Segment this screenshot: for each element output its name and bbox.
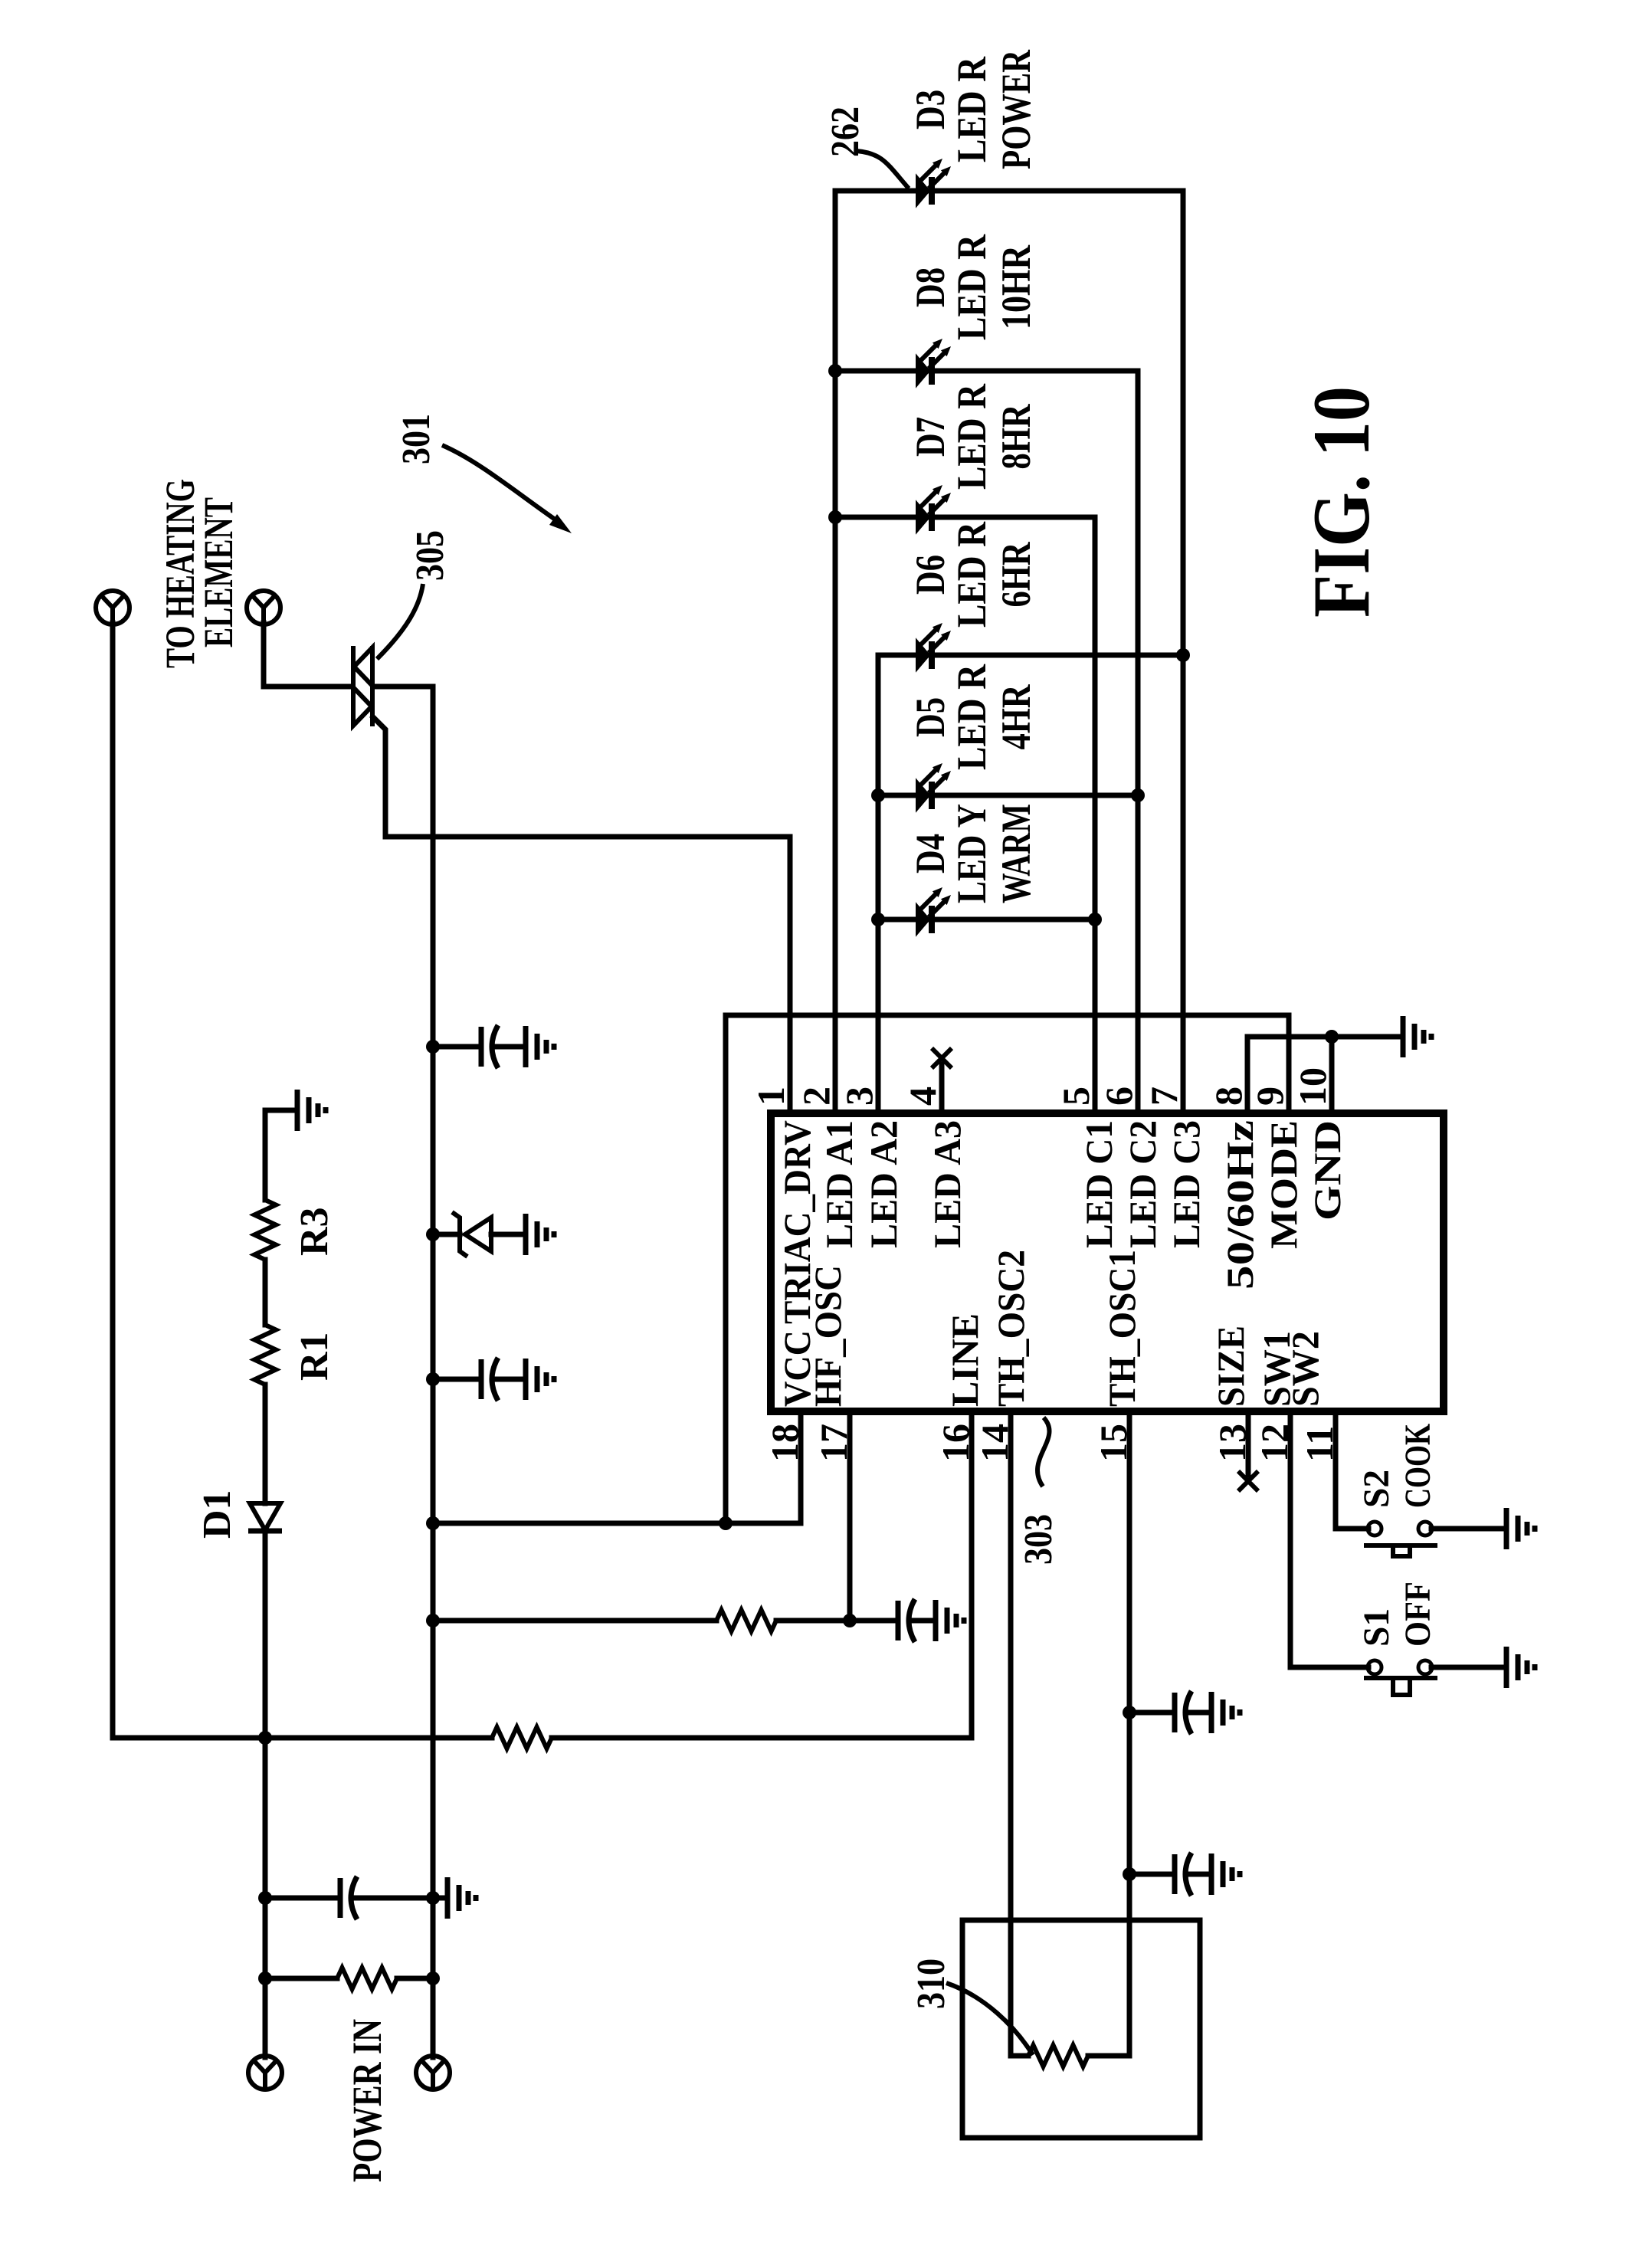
svg-text:LED C1: LED C1 [1077, 1120, 1120, 1248]
node rail3 vcc [426, 1516, 440, 1530]
LED D8 [916, 339, 951, 386]
node pin17 rc [843, 1614, 857, 1627]
wire: LED C3 rail [1181, 191, 1186, 1111]
terminal heating R [247, 591, 280, 624]
wire: rail3 cap shunt 1 [433, 1044, 526, 1050]
resistor line-sense [492, 1727, 552, 1749]
svg-text:D6: D6 [907, 555, 953, 595]
wire: D5 row [878, 793, 1138, 798]
node mode/vcc [719, 1516, 733, 1530]
svg-text:ELEMENT: ELEMENT [195, 497, 241, 647]
svg-text:FIG. 10: FIG. 10 [1296, 386, 1386, 618]
wire: rail3 zener shunt [433, 1232, 526, 1237]
wire: S2 to ground [1431, 1526, 1506, 1532]
no-connect pin4 [932, 1048, 952, 1068]
svg-text:D5: D5 [907, 697, 953, 737]
capacitor rail3 upper [481, 1025, 498, 1068]
wire: MODE loop around IC [726, 1015, 1289, 1523]
resistor power-in [337, 1968, 397, 1989]
svg-text:POWER IN: POWER IN [344, 2019, 390, 2182]
svg-text:TH_OSC1: TH_OSC1 [1100, 1250, 1143, 1407]
ground rail2 top [297, 1090, 326, 1131]
svg-text:17: 17 [812, 1424, 855, 1462]
svg-text:15: 15 [1092, 1424, 1135, 1462]
node rail3 powercap [426, 1891, 440, 1905]
node rail3 cap2 [426, 1372, 440, 1386]
wire: pin13 stub [1246, 1411, 1251, 1475]
svg-text:16: 16 [934, 1424, 977, 1462]
terminal heating L [96, 591, 129, 624]
svg-text:4: 4 [901, 1087, 944, 1106]
wire: thermistor link in box [1011, 2053, 1129, 2059]
node rail2/res [258, 1971, 272, 1985]
svg-text:LED C2: LED C2 [1121, 1120, 1164, 1248]
zener diode [452, 1212, 491, 1257]
no-connect pin13 [1238, 1471, 1258, 1491]
svg-text:1: 1 [749, 1087, 792, 1106]
svg-text:SIZE: SIZE [1209, 1326, 1252, 1407]
node a1/d7 [828, 510, 842, 524]
diode D1 [248, 1503, 282, 1531]
capacitor th-osc1 b [1175, 1853, 1191, 1896]
svg-text:305: 305 [408, 530, 452, 581]
svg-text:MODE: MODE [1262, 1120, 1305, 1249]
node rail2/line [258, 1731, 272, 1745]
svg-text:6HR: 6HR [993, 542, 1039, 608]
svg-text:S1: S1 [1356, 1608, 1397, 1647]
wire: VCC feed [433, 1414, 801, 1523]
wire: pin9 stub [1287, 1015, 1292, 1111]
wire: pin15 cap row 2 [1129, 1872, 1211, 1877]
wire: S1 to ground [1431, 1665, 1506, 1670]
node rail3 hf [426, 1614, 440, 1627]
svg-text:TH_OSC2: TH_OSC2 [989, 1250, 1032, 1407]
wire: pin8 pin10 ground tie [1247, 1037, 1403, 1111]
wire: D6 row [878, 653, 1183, 658]
svg-text:SW2: SW2 [1283, 1331, 1326, 1407]
svg-text:D1: D1 [195, 1490, 239, 1539]
node pin10 gnd [1325, 1030, 1339, 1044]
node pin15 cap2 [1123, 1867, 1136, 1881]
svg-text:LED A3: LED A3 [926, 1120, 969, 1248]
node a2/d4 [871, 913, 885, 926]
node c2/d5 [1131, 788, 1145, 802]
svg-text:D4: D4 [907, 834, 953, 873]
wire: LED A1 rail [833, 191, 838, 1111]
wire: pin14 TH_OSC2 drop [1008, 1414, 1014, 2056]
capacitor power-in [340, 1876, 357, 1919]
node c3/d6 [1176, 648, 1190, 662]
wire: pin15 TH_OSC1 drop [1127, 1414, 1132, 2056]
ground rail3 cap2 [526, 1359, 554, 1400]
LED D4 [916, 887, 951, 935]
node a2/d5 [871, 788, 885, 802]
node rail3 cap1 [426, 1040, 440, 1054]
svg-text:D3: D3 [907, 90, 953, 129]
svg-text:11: 11 [1298, 1426, 1341, 1462]
svg-text:GND: GND [1306, 1120, 1349, 1221]
svg-text:OFF: OFF [1398, 1581, 1438, 1647]
resistor R3 [254, 1200, 276, 1260]
LED D7 [916, 485, 951, 533]
wire: LED C1 rail [1093, 517, 1098, 1111]
wire: pin11 to S2 [1336, 1414, 1368, 1529]
svg-text:WARM: WARM [993, 804, 1039, 903]
resistor thermistor 310 [1028, 2045, 1088, 2067]
svg-text:HF_OSC: HF_OSC [806, 1265, 849, 1407]
ground power cap [447, 1877, 476, 1919]
ground pin8 pin10 [1403, 1016, 1431, 1057]
svg-text:LINE: LINE [943, 1313, 986, 1407]
node rail3 zener [426, 1227, 440, 1241]
capacitor rail3 lower [481, 1358, 498, 1401]
resistor hf-osc [716, 1610, 776, 1631]
wire: D1 chain rail [265, 1110, 297, 2057]
wire: pin2 stub [833, 1111, 838, 1113]
node rail2/cap [258, 1891, 272, 1905]
svg-text:301: 301 [395, 414, 438, 464]
svg-text:8HR: 8HR [993, 404, 1039, 470]
svg-text:6: 6 [1097, 1087, 1140, 1106]
svg-text:R1: R1 [293, 1332, 336, 1381]
node rail3 powerres [426, 1971, 440, 1985]
wire: LED C2 rail [1136, 371, 1141, 1111]
svg-text:2: 2 [795, 1087, 837, 1106]
svg-text:POWER: POWER [993, 49, 1039, 169]
svg-text:D7: D7 [907, 417, 953, 457]
svg-text:LED R: LED R [949, 383, 995, 490]
svg-text:LED A2: LED A2 [862, 1120, 905, 1248]
IC U303 body [771, 1113, 1444, 1411]
svg-text:D8: D8 [907, 267, 953, 307]
svg-text:13: 13 [1211, 1424, 1254, 1462]
switch S1 [1364, 1660, 1437, 1695]
wire: D4 row [878, 917, 1095, 923]
triac 305 [353, 646, 372, 726]
svg-text:14: 14 [973, 1424, 1016, 1462]
svg-text:7: 7 [1142, 1087, 1185, 1106]
resistor R1 [254, 1325, 276, 1385]
svg-text:R3: R3 [293, 1207, 336, 1256]
svg-text:LED Y: LED Y [949, 804, 995, 903]
node a1/d8 [828, 364, 842, 378]
capacitor th-osc1 a [1175, 1691, 1191, 1734]
svg-text:LED R: LED R [949, 56, 995, 162]
wire: triac to VCC rail corner [374, 687, 433, 2057]
svg-text:LED R: LED R [949, 234, 995, 340]
svg-text:4HR: 4HR [993, 684, 1039, 750]
ground rail3 cap1 [526, 1026, 554, 1067]
capacitor hf-osc [898, 1599, 915, 1642]
LED D5 [916, 763, 951, 811]
svg-text:3: 3 [837, 1087, 880, 1106]
wire: pin12 to S1 [1290, 1414, 1368, 1667]
box 310 thermistor enclosure [962, 1920, 1200, 2138]
wire: triac gate to pin1 [373, 717, 790, 1111]
node c1/d4 [1088, 913, 1102, 926]
svg-text:10HR: 10HR [993, 244, 1039, 329]
LED D6 [916, 623, 951, 670]
wire: pin4 stub [939, 1064, 945, 1113]
wire: right heating terminal drop [264, 623, 351, 687]
ground th cap a [1211, 1692, 1240, 1733]
wire: LED A2 rail [876, 655, 881, 1111]
wire: rail3 cap shunt 2 [433, 1377, 526, 1382]
wire: pin15 cap row 1 [1129, 1710, 1211, 1716]
ground th cap b [1211, 1853, 1240, 1895]
wire: D8 row [835, 369, 1138, 374]
node pin15 cap1 [1123, 1706, 1136, 1719]
svg-text:18: 18 [763, 1424, 806, 1462]
svg-text:9: 9 [1248, 1087, 1291, 1106]
wire: HF_OSC RC row [433, 1618, 936, 1624]
LED D3 [916, 159, 951, 206]
wire: power-in resistor row [265, 1976, 433, 1981]
svg-text:LED C3: LED C3 [1165, 1120, 1208, 1248]
wire: power-in cap row [265, 1896, 447, 1901]
svg-text:LED R: LED R [949, 521, 995, 628]
wire: pin17 HF_OSC drop [847, 1414, 853, 1621]
wire: left terminal drop rail [110, 623, 116, 1738]
svg-text:8: 8 [1207, 1087, 1250, 1106]
terminal power R [416, 2056, 450, 2089]
svg-text:LED A1: LED A1 [818, 1120, 860, 1248]
svg-text:LED R: LED R [949, 664, 995, 770]
wire: D3 row [835, 188, 1183, 194]
svg-text:12: 12 [1253, 1424, 1296, 1462]
wire: LINE sense wire bottom [113, 1414, 972, 1738]
svg-text:5: 5 [1054, 1087, 1097, 1106]
svg-text:303: 303 [1017, 1514, 1060, 1565]
ground S1 [1506, 1647, 1535, 1688]
svg-text:10: 10 [1291, 1067, 1334, 1106]
ground hf cap [936, 1600, 964, 1641]
wire: D7 row [835, 515, 1095, 520]
ground rail3 zener [526, 1214, 554, 1255]
terminal power L [248, 2056, 282, 2089]
svg-text:50/60Hz: 50/60Hz [1218, 1120, 1261, 1290]
ground S2 [1506, 1508, 1535, 1549]
switch S2 [1364, 1522, 1437, 1556]
svg-text:COOK: COOK [1398, 1424, 1438, 1508]
svg-text:S2: S2 [1356, 1470, 1397, 1508]
